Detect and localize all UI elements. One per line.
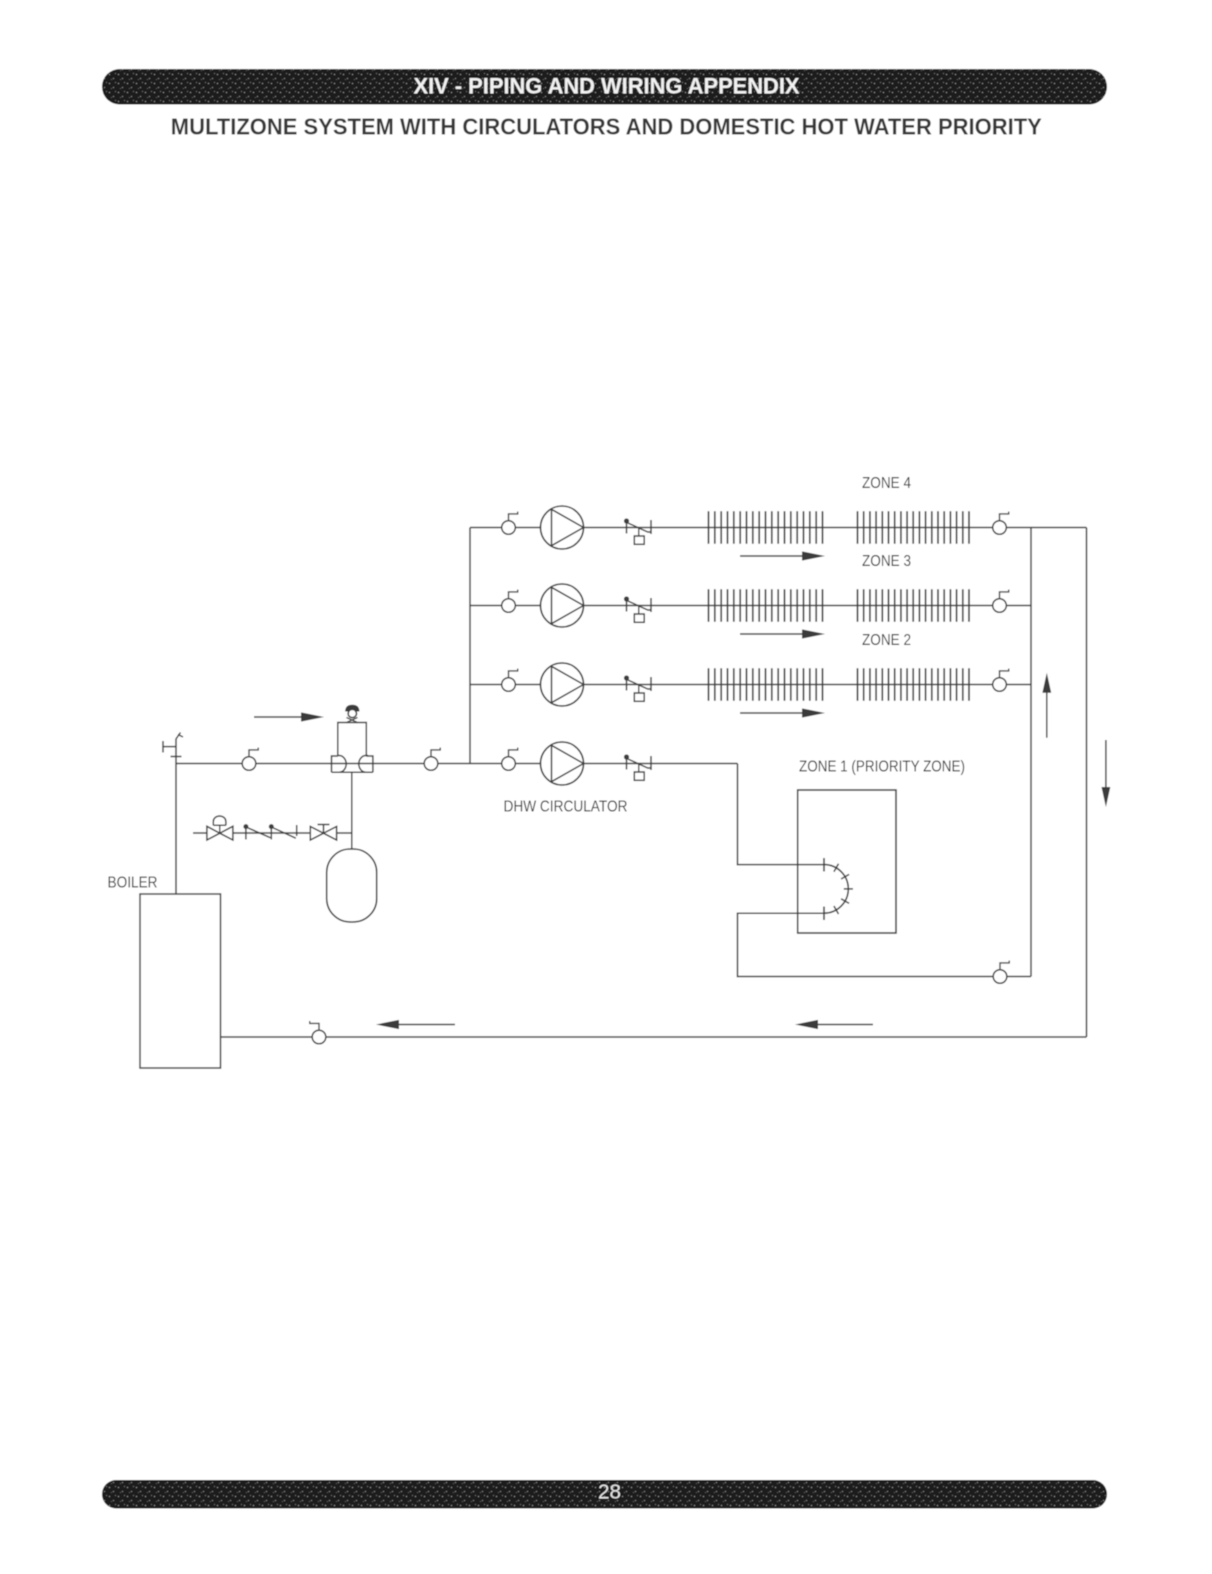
wire zone 4 supply line: [470, 527, 1087, 529]
baseboard radiator zone 3 left: [709, 589, 823, 621]
valve zone 3 right isolation: [993, 590, 1009, 613]
indirect water heater tank: [798, 790, 896, 933]
svg-text:ZONE 3: ZONE 3: [862, 553, 911, 570]
riser flow arrow up: [1042, 673, 1051, 738]
flow arrow zone 2: [740, 708, 825, 717]
valve zone 2 left isolation: [502, 669, 518, 692]
valve zone 1 return: [993, 961, 1009, 984]
svg-text:BOILER: BOILER: [108, 875, 158, 892]
check valve fill 1: [243, 824, 270, 839]
flow arrow zone 4: [740, 551, 825, 560]
baseboard radiator zone 2 left: [709, 668, 823, 700]
mixing valve actuator knob: [345, 705, 359, 723]
svg-text:MULTIZONE SYSTEM WITH CIRCULAT: MULTIZONE SYSTEM WITH CIRCULATORS AND DO…: [171, 114, 1042, 140]
boiler: [140, 894, 221, 1068]
baseboard radiator zone 3 right: [858, 589, 970, 621]
flow-check valve zone 3: [624, 596, 651, 622]
circulator pump zone 3: [541, 584, 584, 627]
valve zone 2 right isolation: [993, 669, 1009, 692]
DHW circulator pump: [541, 742, 584, 785]
baseboard radiator zone 2 right: [858, 668, 970, 700]
svg-text:28: 28: [598, 1482, 621, 1504]
flow-check valve zone 4: [624, 518, 651, 544]
gate valve fill line: [310, 825, 336, 841]
valve DHW circulator inlet: [502, 748, 518, 771]
flow-check valve zone 2: [624, 675, 651, 701]
wire left zone riser: [469, 528, 471, 764]
valve boiler return: [310, 1021, 326, 1044]
flow arrow boiler supply: [254, 712, 324, 721]
return flow arrow right: [795, 1020, 873, 1029]
expansion tank: [327, 849, 377, 922]
check valve fill 2: [269, 824, 297, 839]
top banner: [102, 69, 1107, 105]
wire boiler fill line: [193, 832, 352, 834]
wire boiler supply main / DHW line: [176, 763, 738, 765]
wire expansion tank drop: [351, 772, 353, 849]
valve zone 4 right isolation: [993, 512, 1009, 535]
svg-text:XIV - PIPING AND WIRING APPEND: XIV - PIPING AND WIRING APPENDIX: [414, 74, 800, 99]
svg-text:ZONE 4: ZONE 4: [862, 475, 911, 492]
baseboard radiator zone 4 left: [709, 511, 823, 543]
valve supply after mixing valve: [424, 748, 440, 771]
wire inner right return riser: [1030, 528, 1032, 977]
svg-text:DHW CIRCULATOR: DHW CIRCULATOR: [504, 799, 628, 816]
bottom banner: [102, 1480, 1107, 1509]
pressure reducing valve: [207, 816, 233, 840]
return flow arrow left: [376, 1020, 455, 1029]
valve zone 3 left isolation: [502, 590, 518, 613]
svg-text:ZONE 1 (PRIORITY ZONE): ZONE 1 (PRIORITY ZONE): [799, 759, 965, 776]
3-way mixing valve body: [332, 756, 373, 773]
wire bottom return main: [221, 1036, 1087, 1038]
wire zone 2 supply line: [470, 684, 1031, 686]
flow-check valve DHW: [624, 754, 651, 780]
wire DHW supply drop to tank coil: [738, 764, 825, 865]
svg-text:ZONE 2: ZONE 2: [862, 632, 911, 649]
wire boiler riser: [176, 733, 183, 895]
flow arrow zone 3: [740, 629, 825, 638]
air vent on boiler riser: [163, 741, 182, 757]
valve zone 4 left isolation: [502, 512, 518, 535]
wire outer right return riser: [1086, 528, 1088, 1038]
valve supply near boiler: [242, 748, 258, 771]
wire DHW return from tank coil: [738, 913, 1032, 976]
tank heat exchanger coil: [824, 858, 853, 920]
baseboard radiator zone 4 right: [858, 511, 970, 543]
riser flow arrow down: [1102, 740, 1111, 807]
wire zone 3 supply line: [470, 605, 1031, 607]
mixing valve actuator box: [338, 723, 367, 757]
circulator pump zone 4: [541, 506, 584, 549]
circulator pump zone 2: [541, 663, 584, 706]
